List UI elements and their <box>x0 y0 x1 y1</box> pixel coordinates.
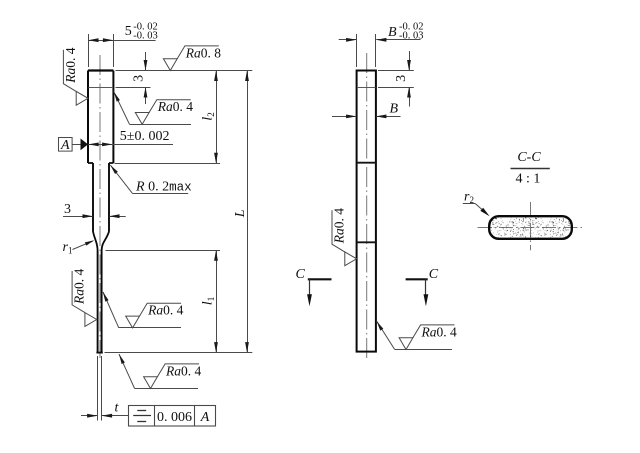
svg-text:Ra0. 4: Ra0. 4 <box>157 99 194 114</box>
svg-text:3: 3 <box>131 75 146 82</box>
svg-text:C-C: C-C <box>517 150 541 165</box>
svg-text:4 : 1: 4 : 1 <box>516 172 541 187</box>
svg-text:-0. 03: -0. 03 <box>133 30 158 41</box>
svg-text:Ra0. 4: Ra0. 4 <box>72 269 87 306</box>
svg-text:Ra0. 4: Ra0. 4 <box>331 208 346 245</box>
svg-text:-0. 03: -0. 03 <box>399 30 424 41</box>
svg-text:Ra0. 8: Ra0. 8 <box>185 45 222 60</box>
svg-text:A: A <box>200 410 210 425</box>
svg-text:B: B <box>390 102 399 117</box>
svg-text:B: B <box>388 25 397 40</box>
svg-text:C: C <box>296 267 306 282</box>
svg-text:L: L <box>233 209 248 218</box>
svg-text:3: 3 <box>64 202 71 217</box>
svg-text:0. 006: 0. 006 <box>157 410 192 425</box>
svg-text:A: A <box>60 138 70 153</box>
svg-text:Ra0. 4: Ra0. 4 <box>63 47 78 84</box>
svg-text:Ra0. 4: Ra0. 4 <box>421 324 458 339</box>
svg-text:Ra0. 4: Ra0. 4 <box>165 363 202 378</box>
svg-text:5±0. 002: 5±0. 002 <box>120 129 170 144</box>
svg-text:5: 5 <box>125 24 132 39</box>
svg-text:C: C <box>429 267 439 282</box>
svg-text:Ra0. 4: Ra0. 4 <box>147 303 184 318</box>
svg-text:3: 3 <box>394 75 409 82</box>
svg-text:R 0. 2max: R 0. 2max <box>135 180 192 195</box>
